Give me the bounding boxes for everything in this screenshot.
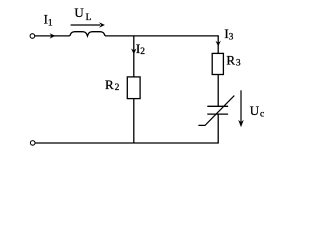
wire right branch down from corner to R3 [217,36,219,54]
label R3 [226,52,241,68]
label R2 [105,77,120,93]
current arrow I1 [50,33,56,38]
wire top rail right of inductor [105,35,219,37]
terminal T1 (top left input) [30,34,35,39]
wire from capacitor down to bottom rail [217,114,219,143]
label U_c [250,103,264,120]
capacitor C bottom plate [207,113,228,115]
label I2 [136,41,145,57]
label I3 [224,26,233,42]
current arrow I2 [131,49,136,55]
svg-text:c: c [260,110,264,120]
resistor R2 [127,77,140,99]
wire bottom rail [35,142,219,144]
voltage arrow U_L [71,22,105,27]
svg-text:U: U [250,103,260,118]
svg-text:1: 1 [48,18,53,28]
wire from R2 down to bottom rail [133,99,135,143]
voltage arrow U_c [238,90,244,127]
inductor L [70,32,105,36]
resistor R3 [212,53,223,74]
wire from R3 down to capacitor [217,75,219,107]
label U_L [74,5,91,23]
svg-text:3: 3 [236,59,241,69]
wire top rail [35,35,70,37]
svg-text:R: R [226,52,235,67]
current arrow I3 [216,41,221,47]
svg-text:R: R [105,77,114,92]
svg-text:U: U [74,5,84,20]
svg-text:2: 2 [140,47,145,57]
terminal T2 (bottom left) [30,141,35,146]
variable capacitor diagonal stroke with tail [198,96,234,126]
svg-text:L: L [86,13,92,23]
capacitor C top plate [207,105,228,107]
svg-text:3: 3 [229,32,234,42]
label I1 [44,12,53,29]
svg-text:2: 2 [115,83,120,93]
wire middle branch down to R2 [133,36,135,77]
